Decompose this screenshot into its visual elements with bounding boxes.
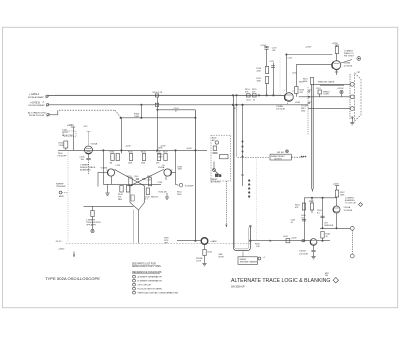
node +100V feed xyxy=(67,125,74,127)
resistor R147 xyxy=(164,154,167,161)
svg-text:R103 2.2K: R103 2.2K xyxy=(153,92,163,94)
capacitor C140 xyxy=(136,177,139,179)
resistor R143 xyxy=(142,154,145,161)
value labels along plate rail xyxy=(107,146,173,172)
wire cross-couple 1 xyxy=(115,170,145,186)
svg-text:C154: C154 xyxy=(246,99,251,101)
capacitor C136 under V135A xyxy=(88,154,90,158)
svg-text:R140: R140 xyxy=(128,152,133,154)
svg-text:OUTPUT: OUTPUT xyxy=(274,159,283,161)
wire lower rail multivib xyxy=(103,183,161,185)
svg-text:R136: R136 xyxy=(110,152,115,154)
svg-text:100K: 100K xyxy=(128,163,133,165)
svg-text:C161: C161 xyxy=(316,88,321,90)
terminal crt cathode xyxy=(350,226,354,230)
svg-text:SW 160: SW 160 xyxy=(277,152,284,154)
pin numbers V159A xyxy=(284,91,294,106)
wire main plate rail xyxy=(58,149,207,151)
resistor R146 xyxy=(157,154,160,161)
wire plate rail right xyxy=(304,197,336,199)
svg-text:47: 47 xyxy=(234,108,236,110)
wire grid V159B xyxy=(296,63,332,65)
wire drop from R103 xyxy=(156,97,158,150)
svg-text:100: 100 xyxy=(81,159,85,161)
wire x133.5 drop xyxy=(133,210,135,244)
svg-text:SEMICONDUCTOR TYPES.: SEMICONDUCTOR TYPES. xyxy=(132,266,162,268)
svg-text:CRT CIRCUIT: CRT CIRCUIT xyxy=(138,285,153,287)
svg-text:BLANKING: BLANKING xyxy=(80,169,91,172)
legend item 1 xyxy=(133,275,136,278)
svg-text:VERTICAL DISPLAY CONSIDERATION: VERTICAL DISPLAY CONSIDERATIONS xyxy=(138,292,179,295)
svg-text:R150: R150 xyxy=(159,191,164,193)
ground at x107.5 xyxy=(107,184,109,193)
capacitor C143 xyxy=(142,177,145,179)
crt bracket pin xyxy=(351,117,353,119)
svg-text:S/N 5000-UP: S/N 5000-UP xyxy=(231,287,245,289)
legend item 5 xyxy=(133,291,136,294)
capacitor C163 label xyxy=(291,220,296,224)
svg-text:2: 2 xyxy=(293,91,294,93)
wire -12.2V dashed rail xyxy=(66,242,251,244)
resistor R104 on bus2 xyxy=(155,103,158,106)
revision note xyxy=(325,273,330,277)
svg-text:6.3V: 6.3V xyxy=(84,126,89,128)
svg-text:1.8K: 1.8K xyxy=(256,246,261,248)
svg-text:47: 47 xyxy=(175,110,178,112)
capacitor C155 label xyxy=(288,58,293,60)
node HV test point xyxy=(340,90,343,93)
svg-text:1M: 1M xyxy=(110,163,113,165)
tube V161A xyxy=(333,206,340,213)
svg-text:8.2: 8.2 xyxy=(317,212,320,214)
wire bus2 +GATE B rail xyxy=(49,104,308,106)
title reference diamond xyxy=(333,278,338,283)
wire blanking drive xyxy=(256,158,258,241)
sheet footer: type label xyxy=(45,277,101,281)
wire CRT cathode lead xyxy=(336,213,338,228)
connector J102 xyxy=(46,104,48,106)
svg-text:C155: C155 xyxy=(288,58,293,60)
wire chassis U-run xyxy=(234,95,251,250)
resistor R161 on riser xyxy=(310,78,313,85)
resistor R159 xyxy=(295,87,298,94)
resistor R142 xyxy=(148,178,151,186)
serial note xyxy=(231,287,245,289)
svg-text:1K: 1K xyxy=(326,236,329,238)
svg-text:+225V: +225V xyxy=(305,47,312,49)
svg-text:+350V: +350V xyxy=(58,249,65,251)
svg-text:-12.2V: -12.2V xyxy=(55,241,62,243)
svg-text:CATHODE: CATHODE xyxy=(324,224,334,227)
svg-text:V159A: V159A xyxy=(276,105,283,108)
tube V161B xyxy=(310,239,317,246)
svg-text:+ GATE B: + GATE B xyxy=(30,101,41,104)
svg-text:220K: 220K xyxy=(257,71,262,73)
svg-text:V145A: V145A xyxy=(158,166,165,169)
wire dashed blanking drop xyxy=(88,160,90,174)
resistor R162 xyxy=(310,203,313,210)
wire plate feed xyxy=(286,54,332,56)
svg-text:PICKOFF: PICKOFF xyxy=(58,155,68,157)
resistor R131 xyxy=(64,141,68,148)
svg-text:+4: +4 xyxy=(42,102,44,104)
svg-text:100K: 100K xyxy=(141,163,146,165)
resistor R156 xyxy=(265,67,268,74)
resistor R169 label xyxy=(299,82,304,84)
svg-text:FROM A SWEEP: FROM A SWEEP xyxy=(28,96,45,99)
svg-text:ALT TRACE SYNC: ALT TRACE SYNC xyxy=(28,111,47,114)
node sweep trigger label xyxy=(56,184,66,189)
svg-text:OFF AMPL: OFF AMPL xyxy=(86,224,97,227)
resistor R144 xyxy=(120,186,123,193)
sheet title xyxy=(231,278,331,284)
resistor row under rail: R136 xyxy=(111,154,114,161)
legend item 2 xyxy=(133,279,136,282)
junction dots right section xyxy=(304,240,305,241)
svg-text:V135A: V135A xyxy=(91,143,98,146)
wire V161B right xyxy=(317,240,330,242)
svg-text:6: 6 xyxy=(287,103,288,105)
node A-GATE input label xyxy=(28,93,45,99)
svg-text:47K: 47K xyxy=(245,92,249,94)
capacitor C107 47 label xyxy=(174,108,180,113)
ground under R152 xyxy=(204,256,206,264)
ground symbol under R133 xyxy=(92,217,94,230)
svg-text:TRIGGER CHASSIS: TRIGGER CHASSIS xyxy=(240,260,258,263)
svg-text:REG: REG xyxy=(118,199,123,201)
svg-text:47K: 47K xyxy=(295,207,299,209)
svg-text:270K: 270K xyxy=(59,145,64,147)
svg-text:.01: .01 xyxy=(291,222,294,224)
svg-text:TYPE 502A OSCILLOSCOPE: TYPE 502A OSCILLOSCOPE xyxy=(45,277,101,281)
sweep trigger chassis label box xyxy=(238,257,258,265)
svg-text:47K: 47K xyxy=(252,92,256,94)
wire cathode stem xyxy=(138,210,140,243)
svg-text:C158: C158 xyxy=(292,72,297,74)
ground right cluster xyxy=(166,193,168,197)
tube V145A xyxy=(164,169,171,176)
wire cathode sub-rail xyxy=(84,205,134,207)
terminal strip TS2 xyxy=(242,105,244,186)
svg-text:V159B: V159B xyxy=(344,63,351,65)
svg-text:1/2 6DJ8: 1/2 6DJ8 xyxy=(276,109,286,111)
svg-text:TO CRT CKT: TO CRT CKT xyxy=(345,202,357,204)
resistor R157 xyxy=(265,77,268,84)
connector J103 xyxy=(47,114,49,116)
dotted holdoff line xyxy=(67,151,69,242)
wire chassis U-run inner shield xyxy=(235,105,249,249)
tube V159A xyxy=(285,93,294,102)
svg-text:SINGLE TRACE: SINGLE TRACE xyxy=(80,166,96,169)
node gate output xyxy=(176,184,179,187)
svg-text:100K: 100K xyxy=(257,81,262,83)
wire cross-couple 2 xyxy=(130,170,164,186)
svg-text:1/2 6DJ8: 1/2 6DJ8 xyxy=(344,210,354,212)
svg-text:SEE PARTS LIST FOR: SEE PARTS LIST FOR xyxy=(132,262,156,265)
tube V135A xyxy=(85,146,93,154)
svg-text:.001: .001 xyxy=(272,50,276,52)
svg-text:C143: C143 xyxy=(147,180,151,182)
svg-text:OFF: OFF xyxy=(164,243,169,245)
svg-text:+100V: +100V xyxy=(160,146,166,148)
svg-text:NOTE: NOTE xyxy=(219,256,225,258)
legend item 4 xyxy=(133,287,136,290)
svg-text:4.7: 4.7 xyxy=(145,199,148,201)
wire grid line 100K xyxy=(121,117,196,119)
svg-text:C131: C131 xyxy=(62,130,68,132)
svg-text:910K: 910K xyxy=(177,194,182,196)
svg-text:V135B: V135B xyxy=(101,168,108,170)
svg-text:TO A SWP: TO A SWP xyxy=(185,184,195,187)
capacitor C164 xyxy=(320,215,324,217)
resistor R148 xyxy=(146,188,149,195)
wire stub right tube xyxy=(171,171,175,173)
capacitor C159 xyxy=(266,47,268,48)
svg-text:V161A: V161A xyxy=(344,206,351,209)
svg-text:FROM B SWEEP: FROM B SWEEP xyxy=(29,105,46,107)
svg-text:ALTERNATE TRACE LOGIC & BLANKI: ALTERNATE TRACE LOGIC & BLANKING xyxy=(231,278,331,284)
power +225V top left cap xyxy=(260,45,267,47)
capacitor C166 xyxy=(302,219,306,221)
svg-text:+ GATE A: + GATE A xyxy=(29,93,40,96)
svg-text:CONN: CONN xyxy=(323,94,329,96)
svg-text:A SWEEP GENERATOR: A SWEEP GENERATOR xyxy=(138,276,162,279)
crt connector bracket xyxy=(349,74,351,120)
wire coupling lead xyxy=(157,109,195,111)
svg-text:+100V: +100V xyxy=(186,148,192,150)
resistors R154 R155 on bus xyxy=(247,94,251,97)
legend item 3 xyxy=(133,283,136,286)
resistor R145 xyxy=(126,186,129,193)
resistor R137 xyxy=(116,154,119,161)
svg-text:+1: +1 xyxy=(263,257,265,259)
wire dashed to lower terminal xyxy=(351,230,353,254)
resistor R140 xyxy=(129,154,132,161)
svg-text:LOOP: LOOP xyxy=(196,261,202,263)
svg-text:R152: R152 xyxy=(208,252,213,254)
svg-text:100K: 100K xyxy=(303,81,308,83)
svg-text:1/2 6DJ8: 1/2 6DJ8 xyxy=(344,65,354,67)
pin marks J102 xyxy=(42,102,44,104)
connector B103 alt sync jack xyxy=(201,238,208,245)
svg-text:C168: C168 xyxy=(283,236,288,238)
svg-text:B SWEEP GENERATOR: B SWEEP GENERATOR xyxy=(138,280,163,283)
resistor R103 on bus1 xyxy=(155,94,158,97)
svg-text:AMPL: AMPL xyxy=(59,195,64,198)
svg-text:C140: C140 xyxy=(134,176,138,178)
svg-text:+1350V: +1350V xyxy=(337,88,344,90)
wire dashed continue xyxy=(292,156,304,158)
wire dashed heater run xyxy=(279,58,281,95)
svg-text:ALT MODE: ALT MODE xyxy=(211,180,221,183)
svg-text:+GATE: +GATE xyxy=(210,240,217,243)
power +225V over V159B xyxy=(305,47,312,49)
reference diamond 3 xyxy=(359,203,363,207)
wire CRT third lead xyxy=(308,108,350,110)
tube V135B xyxy=(107,169,114,176)
wire riser bus2 to grid line xyxy=(140,105,142,118)
svg-text:+225V: +225V xyxy=(332,43,339,45)
capacitor C131 selected label xyxy=(62,130,73,137)
connector to CRT pin xyxy=(357,57,361,61)
wire stub left tube xyxy=(98,171,108,173)
terminal strip TS3 xyxy=(248,180,250,182)
wire cathode to terminal xyxy=(341,60,352,64)
svg-text:PLUG-IN UNIT EXTERN.: PLUG-IN UNIT EXTERN. xyxy=(138,289,163,291)
arrow symbol lower-left xyxy=(73,252,75,258)
note near chassis run xyxy=(219,254,225,258)
svg-text:R162: R162 xyxy=(309,201,314,203)
resistor R141 xyxy=(129,178,132,186)
wire unblanking pair xyxy=(311,84,313,189)
wire single sweep dashed xyxy=(238,157,270,159)
tube V145B envelope xyxy=(130,186,144,210)
legend: parts list note xyxy=(132,262,162,268)
wire drop to V135B grid xyxy=(120,118,122,154)
svg-text:C146: C146 xyxy=(158,182,163,184)
svg-text:R141: R141 xyxy=(127,176,132,178)
svg-text:PIN 19 SKT: PIN 19 SKT xyxy=(344,56,355,58)
svg-text:SELECT: SELECT xyxy=(151,196,159,198)
wire bus1 +GATE A rail xyxy=(48,94,284,96)
dots column xyxy=(301,156,302,157)
wire dashed drop from switch xyxy=(225,181,227,227)
resistor R167 xyxy=(335,190,338,197)
resistor R133 xyxy=(91,211,94,217)
connector bracket P11 xyxy=(307,87,309,135)
svg-text:964: 964 xyxy=(325,275,328,277)
svg-text:R169: R169 xyxy=(299,82,304,84)
resistor R106 100K label xyxy=(134,114,140,119)
svg-text:REFERENCE DIAGRAMS: REFERENCE DIAGRAMS xyxy=(132,271,162,274)
single sweep output label box xyxy=(270,154,291,160)
svg-text:R143: R143 xyxy=(141,152,146,154)
node circled-plus xyxy=(286,150,289,153)
svg-text:100K: 100K xyxy=(158,157,163,159)
wire bus1 to mid bracket xyxy=(299,96,351,98)
svg-text:R142: R142 xyxy=(147,176,152,178)
resistor R158 xyxy=(335,47,338,54)
wire CRT top lead xyxy=(313,83,350,85)
wire alt sync lead xyxy=(49,114,57,116)
svg-text:47K: 47K xyxy=(156,163,160,165)
resistor R152 under jack xyxy=(204,244,206,249)
wire trig input lead xyxy=(58,153,68,158)
power +225V right xyxy=(333,184,340,186)
svg-text:C139: C139 xyxy=(116,165,121,167)
capacitor C161 xyxy=(318,90,322,94)
wire jack lead xyxy=(177,240,201,242)
svg-text:47K: 47K xyxy=(300,92,304,94)
node ALT-TRACE SYNC input label xyxy=(28,111,47,117)
svg-text:V161B: V161B xyxy=(299,251,306,253)
capacitor C157 column xyxy=(272,63,274,96)
svg-text:R147: R147 xyxy=(163,152,168,154)
svg-text:100K: 100K xyxy=(178,169,183,171)
svg-text:TRIGGER: TRIGGER xyxy=(56,186,66,188)
svg-text:100K: 100K xyxy=(340,195,345,197)
switch SW160 dashed enclosure xyxy=(211,135,231,181)
svg-text:FROM PLUG-IN: FROM PLUG-IN xyxy=(29,115,45,117)
resistor R164 xyxy=(321,232,324,239)
connector J101 xyxy=(46,95,48,97)
legend: reference diagrams heading xyxy=(132,271,162,274)
ground under C165 xyxy=(311,256,315,258)
svg-text:+100V: +100V xyxy=(125,146,131,148)
svg-text:.001: .001 xyxy=(301,217,305,219)
node CRT pin notes xyxy=(301,106,309,113)
node B-GATE input label xyxy=(29,101,46,107)
svg-text:C157: C157 xyxy=(270,61,275,63)
resistor R163 xyxy=(302,203,305,210)
svg-text:47: 47 xyxy=(253,99,255,101)
tube V159B xyxy=(332,61,341,70)
svg-text:GND: GND xyxy=(301,111,306,113)
ground under bracket xyxy=(351,117,353,123)
svg-text:1/2 6DJ8: 1/2 6DJ8 xyxy=(299,253,309,255)
capacitor C168 xyxy=(286,239,290,243)
svg-text:SHIELDED CABLE: SHIELDED CABLE xyxy=(318,81,335,84)
svg-text:4.7-8.2: 4.7-8.2 xyxy=(62,132,69,134)
svg-text:7: 7 xyxy=(284,91,285,93)
svg-text:R160: R160 xyxy=(296,102,301,104)
svg-text:+100V: +100V xyxy=(291,237,297,239)
wire alt sync riser xyxy=(194,110,196,241)
svg-text:CRT: CRT xyxy=(357,72,362,74)
capacitor C165 under tube xyxy=(313,245,315,250)
